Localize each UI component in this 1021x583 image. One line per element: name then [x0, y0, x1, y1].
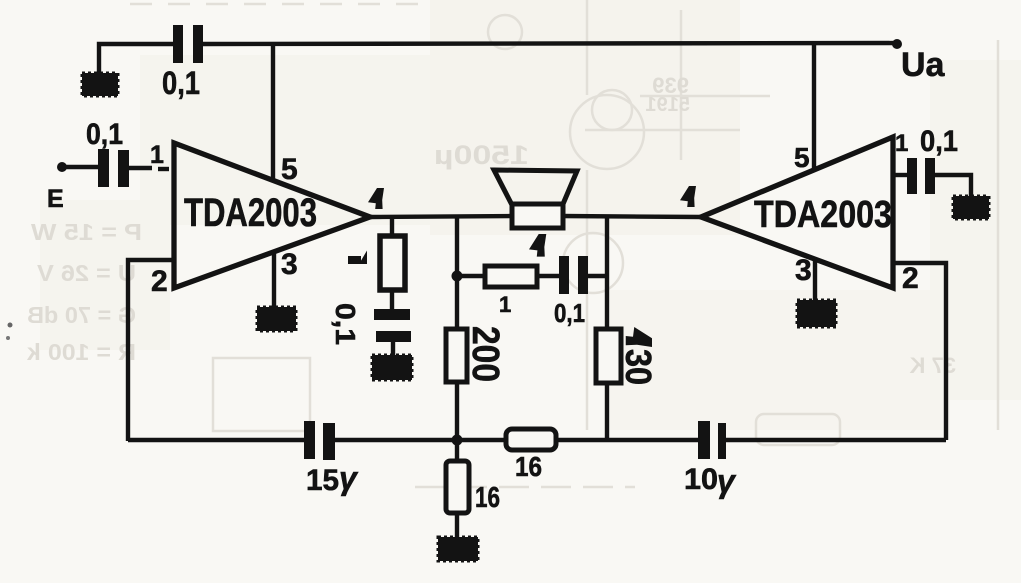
svg-text:37 K: 37 K: [909, 353, 956, 378]
svg-text:TDA2003: TDA2003: [754, 194, 892, 236]
svg-text:U = 26 V: U = 26 V: [36, 260, 136, 286]
svg-text:0,1: 0,1: [920, 125, 958, 158]
svg-text:0,1: 0,1: [162, 65, 200, 101]
svg-text:16: 16: [515, 451, 542, 482]
svg-text:30: 30: [618, 349, 659, 385]
svg-text:TDA2003: TDA2003: [184, 191, 317, 235]
svg-text:15: 15: [306, 464, 339, 497]
svg-text:3: 3: [795, 254, 812, 287]
svg-text:E: E: [47, 185, 64, 213]
svg-text:1: 1: [150, 141, 164, 169]
svg-text:2: 2: [902, 262, 919, 295]
svg-text:16: 16: [475, 482, 500, 514]
svg-text:P = 15 W: P = 15 W: [31, 219, 142, 245]
svg-text:1500µ: 1500µ: [434, 140, 529, 170]
svg-text:200: 200: [464, 326, 506, 382]
svg-text:G = 70 dB: G = 70 dB: [27, 302, 136, 328]
svg-text:Ua: Ua: [901, 46, 946, 84]
svg-text:5: 5: [281, 153, 298, 186]
svg-text:1: 1: [499, 292, 511, 317]
svg-text:0,1: 0,1: [330, 303, 361, 345]
svg-text:0,1: 0,1: [554, 298, 585, 328]
svg-text:γ: γ: [339, 460, 359, 496]
svg-text:1: 1: [895, 130, 908, 157]
svg-text:R = 100 k: R = 100 k: [27, 339, 136, 365]
svg-text:γ: γ: [717, 463, 737, 499]
svg-text:5191: 5191: [646, 94, 691, 116]
svg-text:10: 10: [684, 463, 718, 496]
svg-text:3: 3: [281, 248, 298, 281]
svg-text:0,1: 0,1: [86, 118, 123, 151]
svg-text:2: 2: [151, 265, 168, 298]
svg-text:5: 5: [794, 142, 810, 173]
